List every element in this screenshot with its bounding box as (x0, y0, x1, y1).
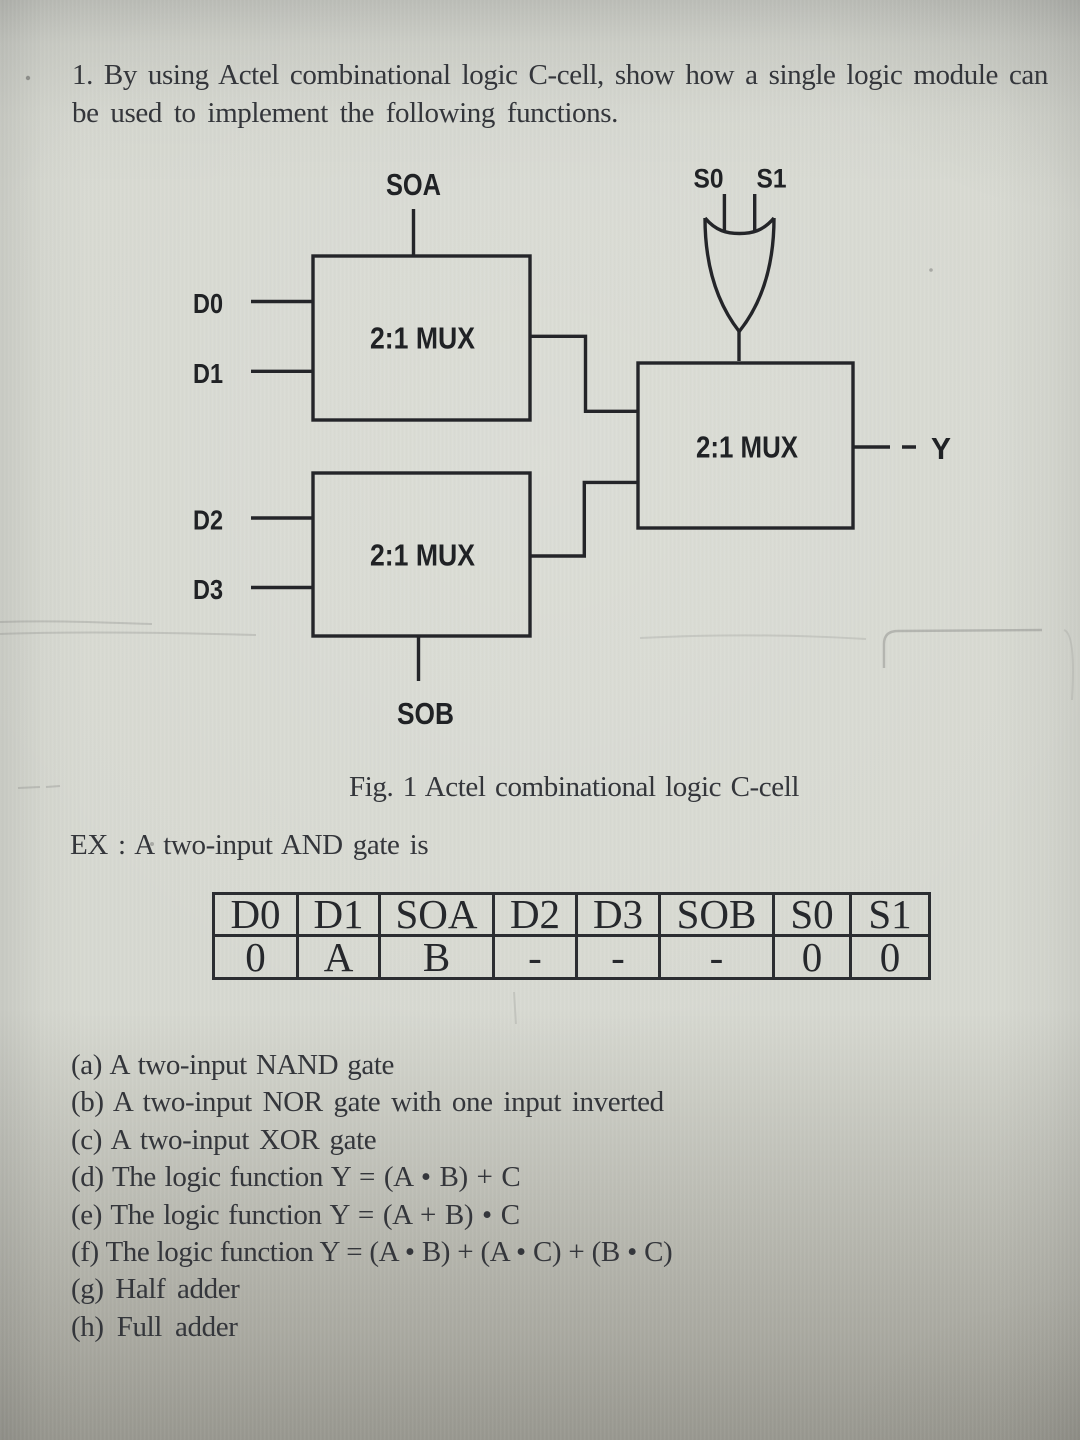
or-gate G1 (OR of S0,S1) (705, 218, 774, 234)
wire SOA stub (412, 209, 415, 256)
example line (70, 829, 428, 862)
or-gate G1 output stub (737, 330, 740, 361)
problem statement paragraph (72, 57, 1048, 132)
truth table (212, 892, 931, 980)
wire D0 input (251, 300, 313, 303)
wire U1 output to U3 input (530, 336, 638, 411)
wire S0 input stub (723, 194, 726, 231)
mux box U3 (2:1 MUX output) (638, 363, 853, 528)
wire U2 output to U3 input (530, 482, 638, 556)
wire D3 input (251, 586, 313, 589)
wire D2 input (251, 516, 313, 519)
wire D1 input (251, 370, 313, 373)
wire S1 input stub (753, 194, 756, 231)
wire Y output (853, 445, 916, 448)
mux box U1 (2:1 MUX top-left) (313, 256, 530, 420)
circuit diagram (0, 0, 1080, 780)
figure caption (349, 771, 799, 804)
mux box U2 (2:1 MUX bottom-left) (313, 473, 530, 636)
functions list (71, 1047, 672, 1346)
wire SOB stub (417, 636, 420, 681)
